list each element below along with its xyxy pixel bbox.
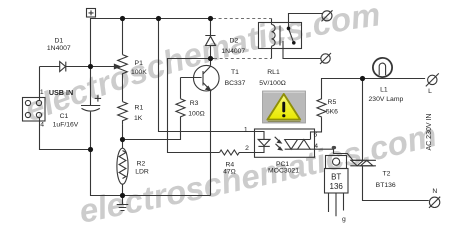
svg-text:C1: C1 bbox=[60, 113, 69, 120]
svg-text:2: 2 bbox=[245, 145, 249, 152]
svg-text:100Ω: 100Ω bbox=[188, 111, 204, 118]
svg-text:R2: R2 bbox=[137, 160, 146, 167]
svg-text:D1: D1 bbox=[54, 37, 63, 44]
svg-text:1N4007: 1N4007 bbox=[47, 45, 71, 52]
svg-text:USB IN: USB IN bbox=[49, 88, 73, 97]
svg-text:100K: 100K bbox=[131, 69, 147, 76]
svg-text:6: 6 bbox=[314, 131, 318, 138]
svg-text:L: L bbox=[428, 88, 432, 95]
svg-text:RL1: RL1 bbox=[267, 69, 280, 76]
svg-text:P1: P1 bbox=[135, 60, 144, 67]
svg-text:4: 4 bbox=[40, 122, 44, 129]
svg-text:T1: T1 bbox=[231, 69, 239, 76]
svg-text:BC337: BC337 bbox=[225, 80, 246, 87]
svg-text:MOC3021: MOC3021 bbox=[268, 168, 299, 175]
svg-text:4: 4 bbox=[314, 143, 318, 150]
svg-text:136: 136 bbox=[330, 182, 344, 191]
svg-text:1: 1 bbox=[40, 89, 44, 96]
svg-text:AC 230V IN: AC 230V IN bbox=[426, 114, 433, 151]
svg-text:BT: BT bbox=[331, 172, 341, 181]
svg-text:D2: D2 bbox=[230, 37, 239, 44]
svg-text:5K6: 5K6 bbox=[326, 108, 338, 115]
svg-text:1: 1 bbox=[244, 126, 248, 133]
svg-text:1uF/16V: 1uF/16V bbox=[53, 121, 79, 128]
svg-text:1N4007: 1N4007 bbox=[221, 48, 245, 55]
svg-text:R4: R4 bbox=[225, 162, 234, 169]
svg-text:R5: R5 bbox=[328, 99, 337, 106]
svg-text:R1: R1 bbox=[135, 105, 144, 112]
svg-text:R3: R3 bbox=[190, 100, 199, 107]
svg-text:T2: T2 bbox=[383, 171, 391, 178]
svg-text:N: N bbox=[432, 188, 437, 195]
svg-text:g: g bbox=[342, 216, 346, 223]
svg-text:BT136: BT136 bbox=[376, 182, 396, 189]
svg-text:47Ω: 47Ω bbox=[223, 169, 236, 176]
svg-text:5V/100Ω: 5V/100Ω bbox=[259, 80, 286, 87]
svg-text:230V Lamp: 230V Lamp bbox=[369, 96, 404, 103]
svg-text:L1: L1 bbox=[380, 87, 388, 94]
svg-text:1K: 1K bbox=[134, 115, 143, 122]
svg-text:LDR: LDR bbox=[135, 168, 149, 175]
